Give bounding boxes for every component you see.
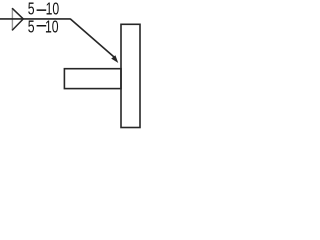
wire leader line — [70, 19, 114, 57]
vertical plate — [121, 24, 140, 127]
weld symbol: lower fillet hypotenuse — [12, 19, 23, 31]
label 5-10 below line — [28, 17, 59, 37]
svg-text:10: 10 — [45, 17, 59, 37]
label 5-10 above line — [28, 0, 59, 19]
svg-text:5: 5 — [28, 0, 35, 19]
svg-text:5: 5 — [28, 17, 35, 37]
arrowhead — [112, 56, 117, 62]
horizontal plate — [64, 69, 121, 89]
svg-text:10: 10 — [46, 0, 60, 19]
wire reference line — [0, 18, 71, 20]
weld symbol: upper fillet hypotenuse — [12, 8, 23, 19]
weld symbol: vertical edge — [11, 8, 13, 30]
